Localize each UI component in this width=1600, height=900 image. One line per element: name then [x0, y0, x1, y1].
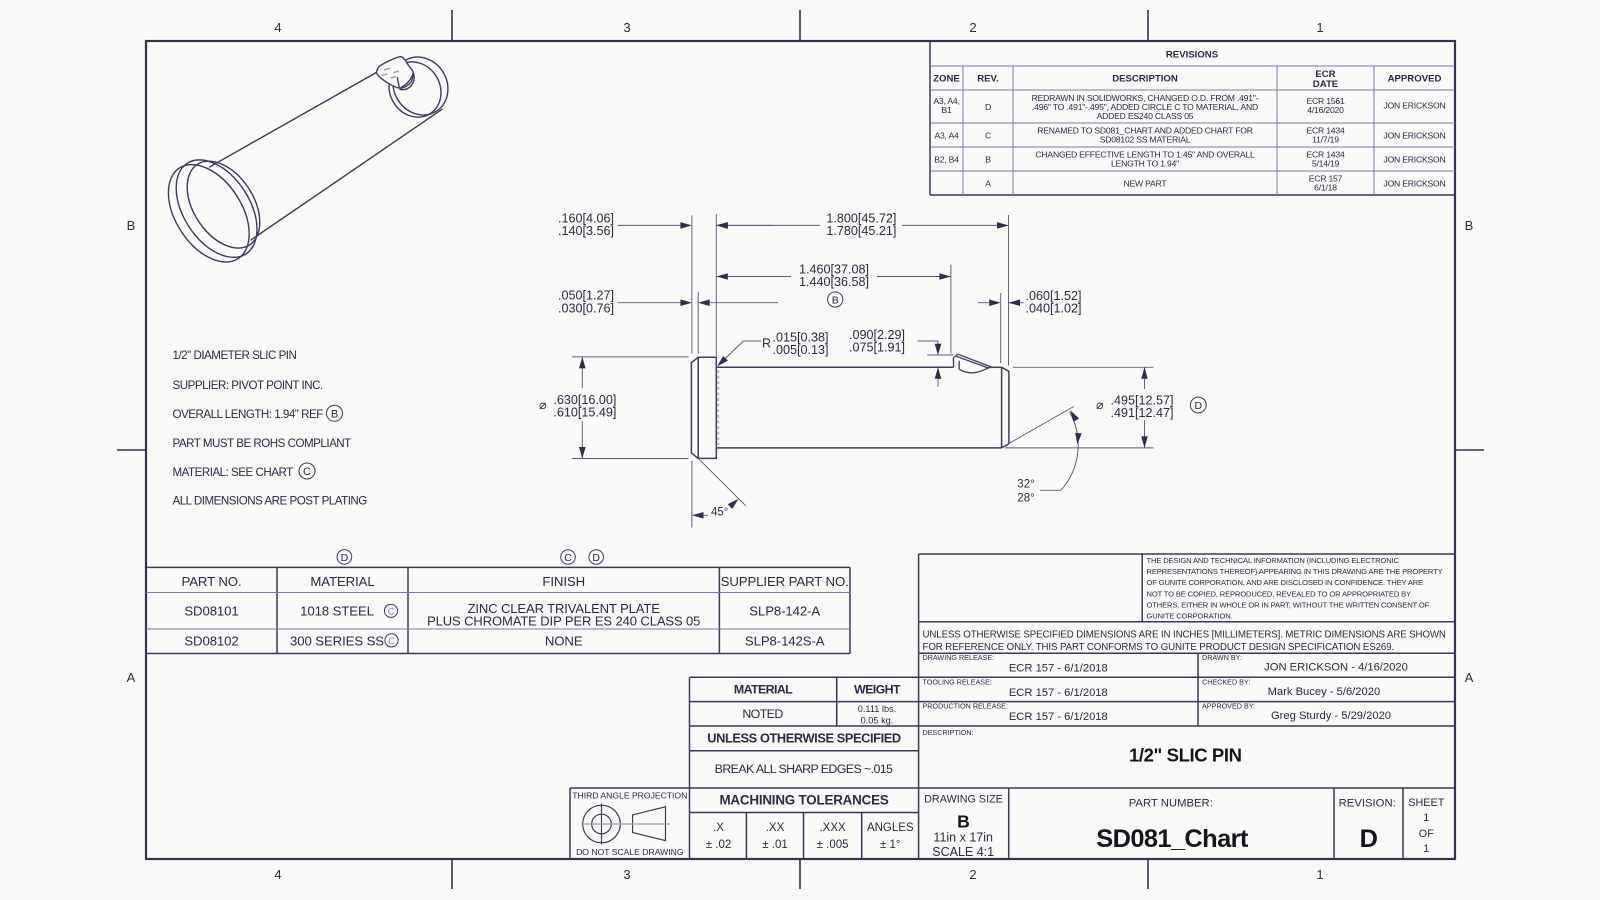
svg-text:SUPPLIER PART NO.: SUPPLIER PART NO. [721, 574, 849, 589]
iso end face ellipse [382, 47, 458, 125]
svg-text:R: R [762, 337, 771, 351]
svg-text:GUNITE CORPORATION.: GUNITE CORPORATION. [1147, 612, 1233, 621]
svg-text:FOR REFERENCE ONLY. THIS PART: FOR REFERENCE ONLY. THIS PART CONFORMS T… [923, 642, 1395, 653]
svg-text:MACHINING TOLERANCES: MACHINING TOLERANCES [719, 793, 888, 808]
svg-text:ECR 157 - 6/1/2018: ECR 157 - 6/1/2018 [1009, 687, 1108, 699]
parts table circled D over FINISH [589, 550, 604, 565]
svg-text:B: B [985, 155, 991, 165]
iso head front face ellipse [172, 148, 275, 261]
iso body silhouette lines [209, 73, 376, 168]
svg-text:.610[15.49]: .610[15.49] [553, 406, 616, 420]
svg-text:DRAWING SIZE: DRAWING SIZE [924, 794, 1003, 806]
svg-text:1.440[36.58]: 1.440[36.58] [799, 275, 869, 289]
svg-text:1: 1 [1316, 867, 1323, 882]
svg-text:1: 1 [1423, 843, 1429, 855]
svg-text:2: 2 [969, 20, 976, 35]
third angle projection symbol [583, 804, 666, 845]
svg-text:45°: 45° [711, 507, 728, 519]
svg-text:JON ERICKSON: JON ERICKSON [1383, 101, 1445, 111]
zone tick marks sides [117, 449, 1484, 451]
svg-text:± .01: ± .01 [762, 839, 788, 851]
svg-text:4: 4 [274, 20, 281, 35]
zone tick marks top [452, 10, 1148, 41]
svg-text:OTHERS, EITHER IN WHOLE OR IN: OTHERS, EITHER IN WHOLE OR IN PART, WITH… [1147, 600, 1430, 609]
svg-text:.XX: .XX [766, 822, 785, 834]
serration marks at head-body junction [717, 370, 719, 445]
material row circled C (row 1) [384, 604, 397, 617]
svg-text:JON ERICKSON: JON ERICKSON [1383, 131, 1445, 141]
zone labels right [1465, 218, 1474, 685]
svg-text:PART MUST BE ROHS COMPLIANT: PART MUST BE ROHS COMPLIANT [173, 437, 352, 450]
svg-text:JON ERICKSON: JON ERICKSON [1383, 155, 1445, 165]
svg-text:⌀: ⌀ [539, 398, 547, 412]
svg-text:1/2" SLIC PIN: 1/2" SLIC PIN [1129, 745, 1242, 766]
svg-text:CHECKED BY:: CHECKED BY: [1202, 677, 1250, 686]
dim .060/.040 end chamfer [978, 293, 1024, 363]
angle dim 45 head chamfer [692, 459, 746, 528]
flag note circle B [327, 405, 343, 421]
svg-text:1.780[45.21]: 1.780[45.21] [826, 224, 896, 238]
svg-text:WEIGHT: WEIGHT [854, 683, 901, 697]
svg-text:ALL DIMENSIONS ARE POST PLATIN: ALL DIMENSIONS ARE POST PLATING [173, 495, 368, 508]
svg-text:A: A [985, 179, 991, 189]
parts table circled C over FINISH [561, 550, 576, 565]
svg-text:LENGTH TO 1.94": LENGTH TO 1.94" [1111, 159, 1179, 169]
release rows [923, 653, 1256, 737]
svg-text:B1: B1 [941, 105, 952, 115]
svg-text:.X: .X [713, 822, 724, 834]
dim .090/.075 detent height [918, 341, 954, 387]
svg-text:BREAK ALL SHARP EDGES ~.015: BREAK ALL SHARP EDGES ~.015 [715, 762, 893, 776]
svg-text:REPRESENTATIONS THEREOF) APPEA: REPRESENTATIONS THEREOF) APPEARING IN TH… [1147, 567, 1443, 576]
svg-text:A: A [1465, 670, 1474, 685]
parts table text [181, 574, 848, 649]
svg-text:B2, B4: B2, B4 [934, 155, 959, 165]
zone labels bottom [274, 867, 1323, 882]
dim dia .630/.610 head diameter [572, 357, 689, 459]
svg-text:PLUS CHROMATE DIP PER ES 240 C: PLUS CHROMATE DIP PER ES 240 CLASS 05 [427, 614, 700, 629]
flag note circle D right of dia .495 [1190, 397, 1206, 413]
svg-text:5/14/19: 5/14/19 [1312, 159, 1340, 169]
iso head rim ellipse [160, 145, 274, 272]
svg-text:MATERIAL: SEE CHART: MATERIAL: SEE CHART [173, 466, 294, 479]
svg-text:Mark Bucey - 5/6/2020: Mark Bucey - 5/6/2020 [1268, 686, 1381, 698]
svg-text:SHEET: SHEET [1408, 797, 1444, 809]
part number box [1096, 798, 1249, 854]
svg-text:SLP8-142-A: SLP8-142-A [749, 604, 820, 619]
dim 1.800/1.780 overall length [716, 215, 1008, 366]
svg-text:3: 3 [623, 20, 630, 35]
zone labels left [127, 218, 136, 685]
svg-text:DRAWING RELEASE:: DRAWING RELEASE: [923, 653, 995, 662]
leader R.015/.005 fillet radius [720, 341, 762, 364]
svg-text:TOOLING RELEASE:: TOOLING RELEASE: [923, 677, 992, 686]
svg-text:SD08102 SS MATERIAL: SD08102 SS MATERIAL [1100, 135, 1191, 145]
svg-text:OF: OF [1419, 828, 1434, 840]
svg-text:B: B [127, 218, 136, 233]
svg-text:.075[1.91]: .075[1.91] [849, 341, 905, 355]
svg-text:PRODUCTION RELEASE:: PRODUCTION RELEASE: [923, 702, 1008, 711]
svg-text:D: D [592, 552, 600, 564]
svg-text:THE DESIGN AND TECHNICAL INFOR: THE DESIGN AND TECHNICAL INFORMATION (IN… [1147, 556, 1400, 565]
dim .050/.030 head chamfer [618, 292, 779, 353]
svg-text:REVISIONS: REVISIONS [1166, 50, 1219, 61]
svg-text:.005[0.13]: .005[0.13] [773, 343, 829, 357]
units note [923, 630, 1446, 654]
svg-text:REV.: REV. [977, 74, 999, 85]
svg-text:⌀: ⌀ [1096, 398, 1104, 412]
svg-text:DESCRIPTION:: DESCRIPTION: [923, 728, 974, 737]
svg-text:B: B [832, 295, 839, 307]
svg-text:4: 4 [274, 867, 281, 882]
svg-text:UNLESS OTHERWISE SPECIFIED: UNLESS OTHERWISE SPECIFIED [707, 731, 901, 746]
flag note circle B under 1.460 dim [828, 292, 843, 307]
svg-text:MATERIAL: MATERIAL [310, 574, 374, 589]
svg-text:1/2" DIAMETER SLIC PIN: 1/2" DIAMETER SLIC PIN [173, 349, 297, 362]
drawing size box [924, 794, 1003, 860]
svg-text:OVERALL LENGTH: 1.94" REF: OVERALL LENGTH: 1.94" REF [173, 408, 324, 421]
parts table circled D over MATERIAL [337, 550, 352, 565]
svg-text:D: D [1360, 825, 1378, 853]
svg-text:SCALE 4:1: SCALE 4:1 [932, 845, 994, 859]
svg-text:JON ERICKSON: JON ERICKSON [1383, 179, 1445, 189]
svg-text:2: 2 [969, 867, 976, 882]
svg-text:APPROVED BY:: APPROVED BY: [1202, 702, 1255, 711]
svg-text:0.111 lbs.: 0.111 lbs. [858, 704, 896, 714]
dim dia .495/.491 body diameter [1005, 367, 1154, 448]
svg-text:A: A [127, 670, 136, 685]
revisions table grid [930, 41, 1455, 195]
svg-text:.040[1.02]: .040[1.02] [1026, 302, 1082, 316]
svg-text:± 1°: ± 1° [880, 839, 901, 851]
svg-text:C: C [303, 466, 311, 478]
svg-text:OF GUNITE CORPORATION, AND ARE: OF GUNITE CORPORATION, AND ARE DISCLOSED… [1147, 578, 1424, 587]
outer drawing frame [146, 41, 1455, 859]
svg-text:ADDED ES240 CLASS 05: ADDED ES240 CLASS 05 [1097, 111, 1194, 121]
machining tolerance cells [706, 822, 914, 851]
svg-text:300 SERIES SS: 300 SERIES SS [290, 634, 384, 649]
svg-text:ECR 157 - 6/1/2018: ECR 157 - 6/1/2018 [1009, 663, 1108, 675]
svg-text:JON ERICKSON - 4/16/2020: JON ERICKSON - 4/16/2020 [1264, 662, 1408, 674]
parts table grid [146, 567, 850, 653]
svg-text:APPROVED: APPROVED [1388, 74, 1442, 85]
svg-text:NOTED: NOTED [742, 707, 783, 721]
svg-text:.140[3.56]: .140[3.56] [558, 224, 614, 238]
svg-text:C: C [985, 131, 991, 141]
svg-text:B: B [1465, 218, 1474, 233]
zone tick marks bottom [452, 859, 1148, 889]
svg-text:B: B [331, 409, 338, 421]
svg-text:DO NOT SCALE DRAWING: DO NOT SCALE DRAWING [576, 847, 684, 857]
svg-text:ZONE: ZONE [933, 74, 960, 85]
svg-text:SD08101: SD08101 [184, 604, 238, 619]
svg-text:1: 1 [1423, 812, 1429, 824]
iso head back face ellipse [152, 150, 266, 277]
svg-text:32°: 32° [1017, 479, 1034, 491]
svg-text:DESCRIPTION: DESCRIPTION [1112, 74, 1178, 85]
svg-text:UNLESS OTHERWISE SPECIFIED DIM: UNLESS OTHERWISE SPECIFIED DIMENSIONS AR… [923, 630, 1446, 641]
svg-text:0.05 kg.: 0.05 kg. [861, 716, 894, 726]
svg-text:3: 3 [623, 867, 630, 882]
svg-text:C: C [388, 636, 395, 647]
svg-text:NONE: NONE [545, 634, 583, 649]
pin head outline [691, 357, 716, 458]
svg-text:THIRD ANGLE PROJECTION: THIRD ANGLE PROJECTION [572, 791, 687, 801]
svg-text:PART NUMBER:: PART NUMBER: [1129, 798, 1213, 810]
zone labels top [274, 20, 1323, 35]
iso SLIC button [376, 57, 414, 90]
svg-text:11/7/19: 11/7/19 [1312, 135, 1339, 145]
svg-text:ECR 157 - 6/1/2018: ECR 157 - 6/1/2018 [1009, 711, 1108, 723]
svg-text:SD081_Chart: SD081_Chart [1096, 825, 1249, 853]
pin body outline [716, 367, 1009, 448]
angle dim 32/28 end chamfer angle [1010, 407, 1078, 491]
svg-text:± .02: ± .02 [706, 839, 732, 851]
svg-text:.491[12.47]: .491[12.47] [1111, 406, 1174, 420]
revision box [1339, 798, 1396, 854]
svg-text:28°: 28° [1017, 493, 1034, 505]
third angle projection box [572, 791, 687, 858]
iso end chamfer ellipse [379, 52, 451, 127]
proprietary legal note [1147, 556, 1443, 621]
svg-text:ANGLES: ANGLES [867, 822, 914, 834]
svg-text:C: C [388, 606, 395, 617]
svg-text:11in x 17in: 11in x 17in [933, 831, 993, 845]
svg-text:D: D [985, 102, 991, 112]
svg-text:SUPPLIER: PIVOT POINT INC.: SUPPLIER: PIVOT POINT INC. [173, 379, 323, 392]
SLIC detent wedge on body [953, 354, 991, 373]
svg-text:PART NO.: PART NO. [181, 574, 241, 589]
svg-text:B: B [957, 812, 970, 832]
svg-text:1: 1 [1316, 20, 1323, 35]
svg-text:MATERIAL: MATERIAL [734, 683, 793, 697]
iso button hatch dashes [382, 68, 400, 78]
svg-text:FINISH: FINISH [542, 574, 585, 589]
svg-text:REVISION:: REVISION: [1339, 798, 1396, 810]
svg-text:NOT TO BE COPIED, REPRODUCED,: NOT TO BE COPIED, REPRODUCED, REVEALED T… [1147, 589, 1412, 598]
svg-text:D: D [341, 552, 349, 564]
material/weight block [707, 683, 901, 808]
svg-text:D: D [1195, 400, 1203, 412]
svg-text:Greg Sturdy - 5/29/2020: Greg Sturdy - 5/29/2020 [1271, 710, 1391, 722]
svg-text:C: C [564, 552, 572, 564]
svg-text:DATE: DATE [1313, 79, 1339, 90]
flag note circle C [299, 463, 315, 479]
svg-text:NEW PART: NEW PART [1124, 179, 1168, 189]
svg-text:A3, A4: A3, A4 [934, 131, 959, 141]
svg-text:1018 STEEL: 1018 STEEL [300, 604, 374, 619]
dim 1.460/1.440 effective length [716, 265, 951, 354]
svg-text:SD08102: SD08102 [184, 634, 238, 649]
svg-text:SLP8-142S-A: SLP8-142S-A [745, 634, 825, 649]
material row circled C (row 2) [385, 634, 398, 647]
svg-text:4/16/2020: 4/16/2020 [1307, 105, 1344, 115]
svg-text:6/1/18: 6/1/18 [1314, 183, 1337, 193]
revisions table text [933, 50, 1441, 91]
sheet box [1408, 797, 1444, 855]
dim .160/.140 head thickness [618, 214, 774, 356]
svg-text:.030[0.76]: .030[0.76] [558, 301, 614, 315]
svg-text:± .005: ± .005 [817, 839, 849, 851]
svg-text:.XXX: .XXX [819, 822, 846, 834]
svg-text:DRAWN BY:: DRAWN BY: [1202, 653, 1242, 662]
general notes [173, 349, 368, 508]
